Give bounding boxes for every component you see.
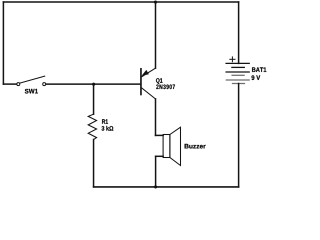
wire emitter to top rail <box>155 2 157 68</box>
wire buzzer to bottom rail <box>155 156 157 187</box>
node buzzer/bottom rail junction <box>154 185 157 188</box>
transistor Q1 <box>141 68 156 99</box>
wire R1 top <box>93 84 95 114</box>
wire base (switch to transistor) <box>46 83 141 85</box>
wire top rail <box>3 1 238 3</box>
node base/R1 junction <box>92 83 95 86</box>
wire collector to buzzer <box>155 99 157 135</box>
switch SW1 <box>17 76 46 86</box>
label 2N3907 <box>156 85 175 90</box>
label 3 kOhm <box>102 126 114 131</box>
wire switch left stub <box>3 83 16 85</box>
wire R1 bottom <box>93 140 95 187</box>
wire left rail <box>2 2 4 84</box>
resistor R1 <box>88 114 96 139</box>
label BAT1 <box>252 67 266 72</box>
label Buzzer <box>185 144 206 149</box>
buzzer <box>156 127 181 165</box>
wire bottom rail <box>94 186 239 188</box>
label SW1 <box>25 89 38 94</box>
label 9 V <box>252 75 261 80</box>
node emitter/top rail junction <box>154 1 157 4</box>
label Q1 <box>156 78 163 84</box>
label R1 <box>102 119 108 124</box>
battery BAT1 <box>226 2 249 187</box>
